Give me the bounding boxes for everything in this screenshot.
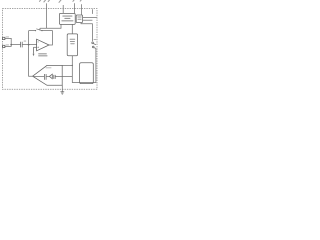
pin SDIO — [73, 3, 75, 13]
interior wire right — [55, 75, 62, 77]
node A dot — [28, 44, 30, 46]
label IN+ — [6, 36, 9, 39]
pin SCLK — [62, 5, 64, 13]
serial port control logic box U3 — [59, 13, 75, 24]
ground stem — [61, 85, 63, 92]
wire serial box to DAC — [71, 24, 73, 34]
switch control drop — [39, 28, 41, 30]
switch S1 lever — [36, 29, 42, 31]
ground symbol — [60, 92, 64, 94]
pin CS — [81, 4, 83, 15]
input terminal IN+ — [3, 37, 5, 39]
wire bias out upper — [83, 17, 97, 19]
output terminal Q — [92, 42, 94, 44]
pin VCC stub — [91, 9, 93, 14]
bias block U4 — [76, 15, 82, 23]
feedback left vertical to node A and loop apex — [29, 31, 33, 77]
comparator minus sign — [38, 41, 39, 44]
interior wire left — [34, 75, 45, 77]
interior wire mid — [46, 75, 49, 77]
wire IN+ to junction — [5, 38, 11, 44]
wire serial to latch control — [40, 24, 61, 28]
label IN- — [6, 44, 9, 47]
wire arrow mid to DAC line — [62, 75, 72, 77]
node junction dot — [10, 44, 12, 46]
wire bias bottom to output — [81, 23, 92, 42]
op-amp U1 high speed comparator — [37, 39, 49, 51]
wire capacitor to comparator input — [22, 44, 37, 46]
capacitor label — [24, 40, 27, 43]
wire junction to capacitor — [11, 44, 20, 46]
dashed IC boundary — [2, 9, 97, 90]
capacitor C3 — [54, 75, 55, 79]
output label — [94, 38, 97, 41]
input terminal IN- — [3, 45, 5, 47]
output terminal Qb — [92, 46, 94, 48]
reference down arrow — [33, 47, 35, 54]
buffer amp (left pointing) — [49, 74, 52, 79]
feedback amplifier block (arrow pentagon) — [33, 65, 63, 85]
DAC box U2 — [67, 34, 77, 56]
switch left contact wire — [29, 30, 36, 32]
switch contact dots — [35, 30, 36, 31]
junction dot DAC line — [72, 65, 73, 66]
label high speed comparator — [38, 53, 47, 56]
wire IN- to junction — [5, 45, 11, 47]
capacitor C1 — [21, 42, 23, 48]
pin labels top-center — [39, 0, 83, 3]
pin V+ (top, into control wire) — [45, 3, 47, 28]
feedback loop box (bottom right) — [80, 63, 94, 84]
comparator minus input stub — [34, 46, 37, 48]
wire arrow top to DAC line — [62, 64, 72, 66]
comparator plus sign — [37, 47, 39, 49]
wire bias out lower (loop) — [83, 19, 93, 21]
capacitor C2 — [44, 74, 46, 80]
feedback wire from output up and left — [42, 31, 52, 45]
wire DAC down and right to output loop — [72, 48, 96, 82]
interior faint label — [46, 66, 52, 69]
